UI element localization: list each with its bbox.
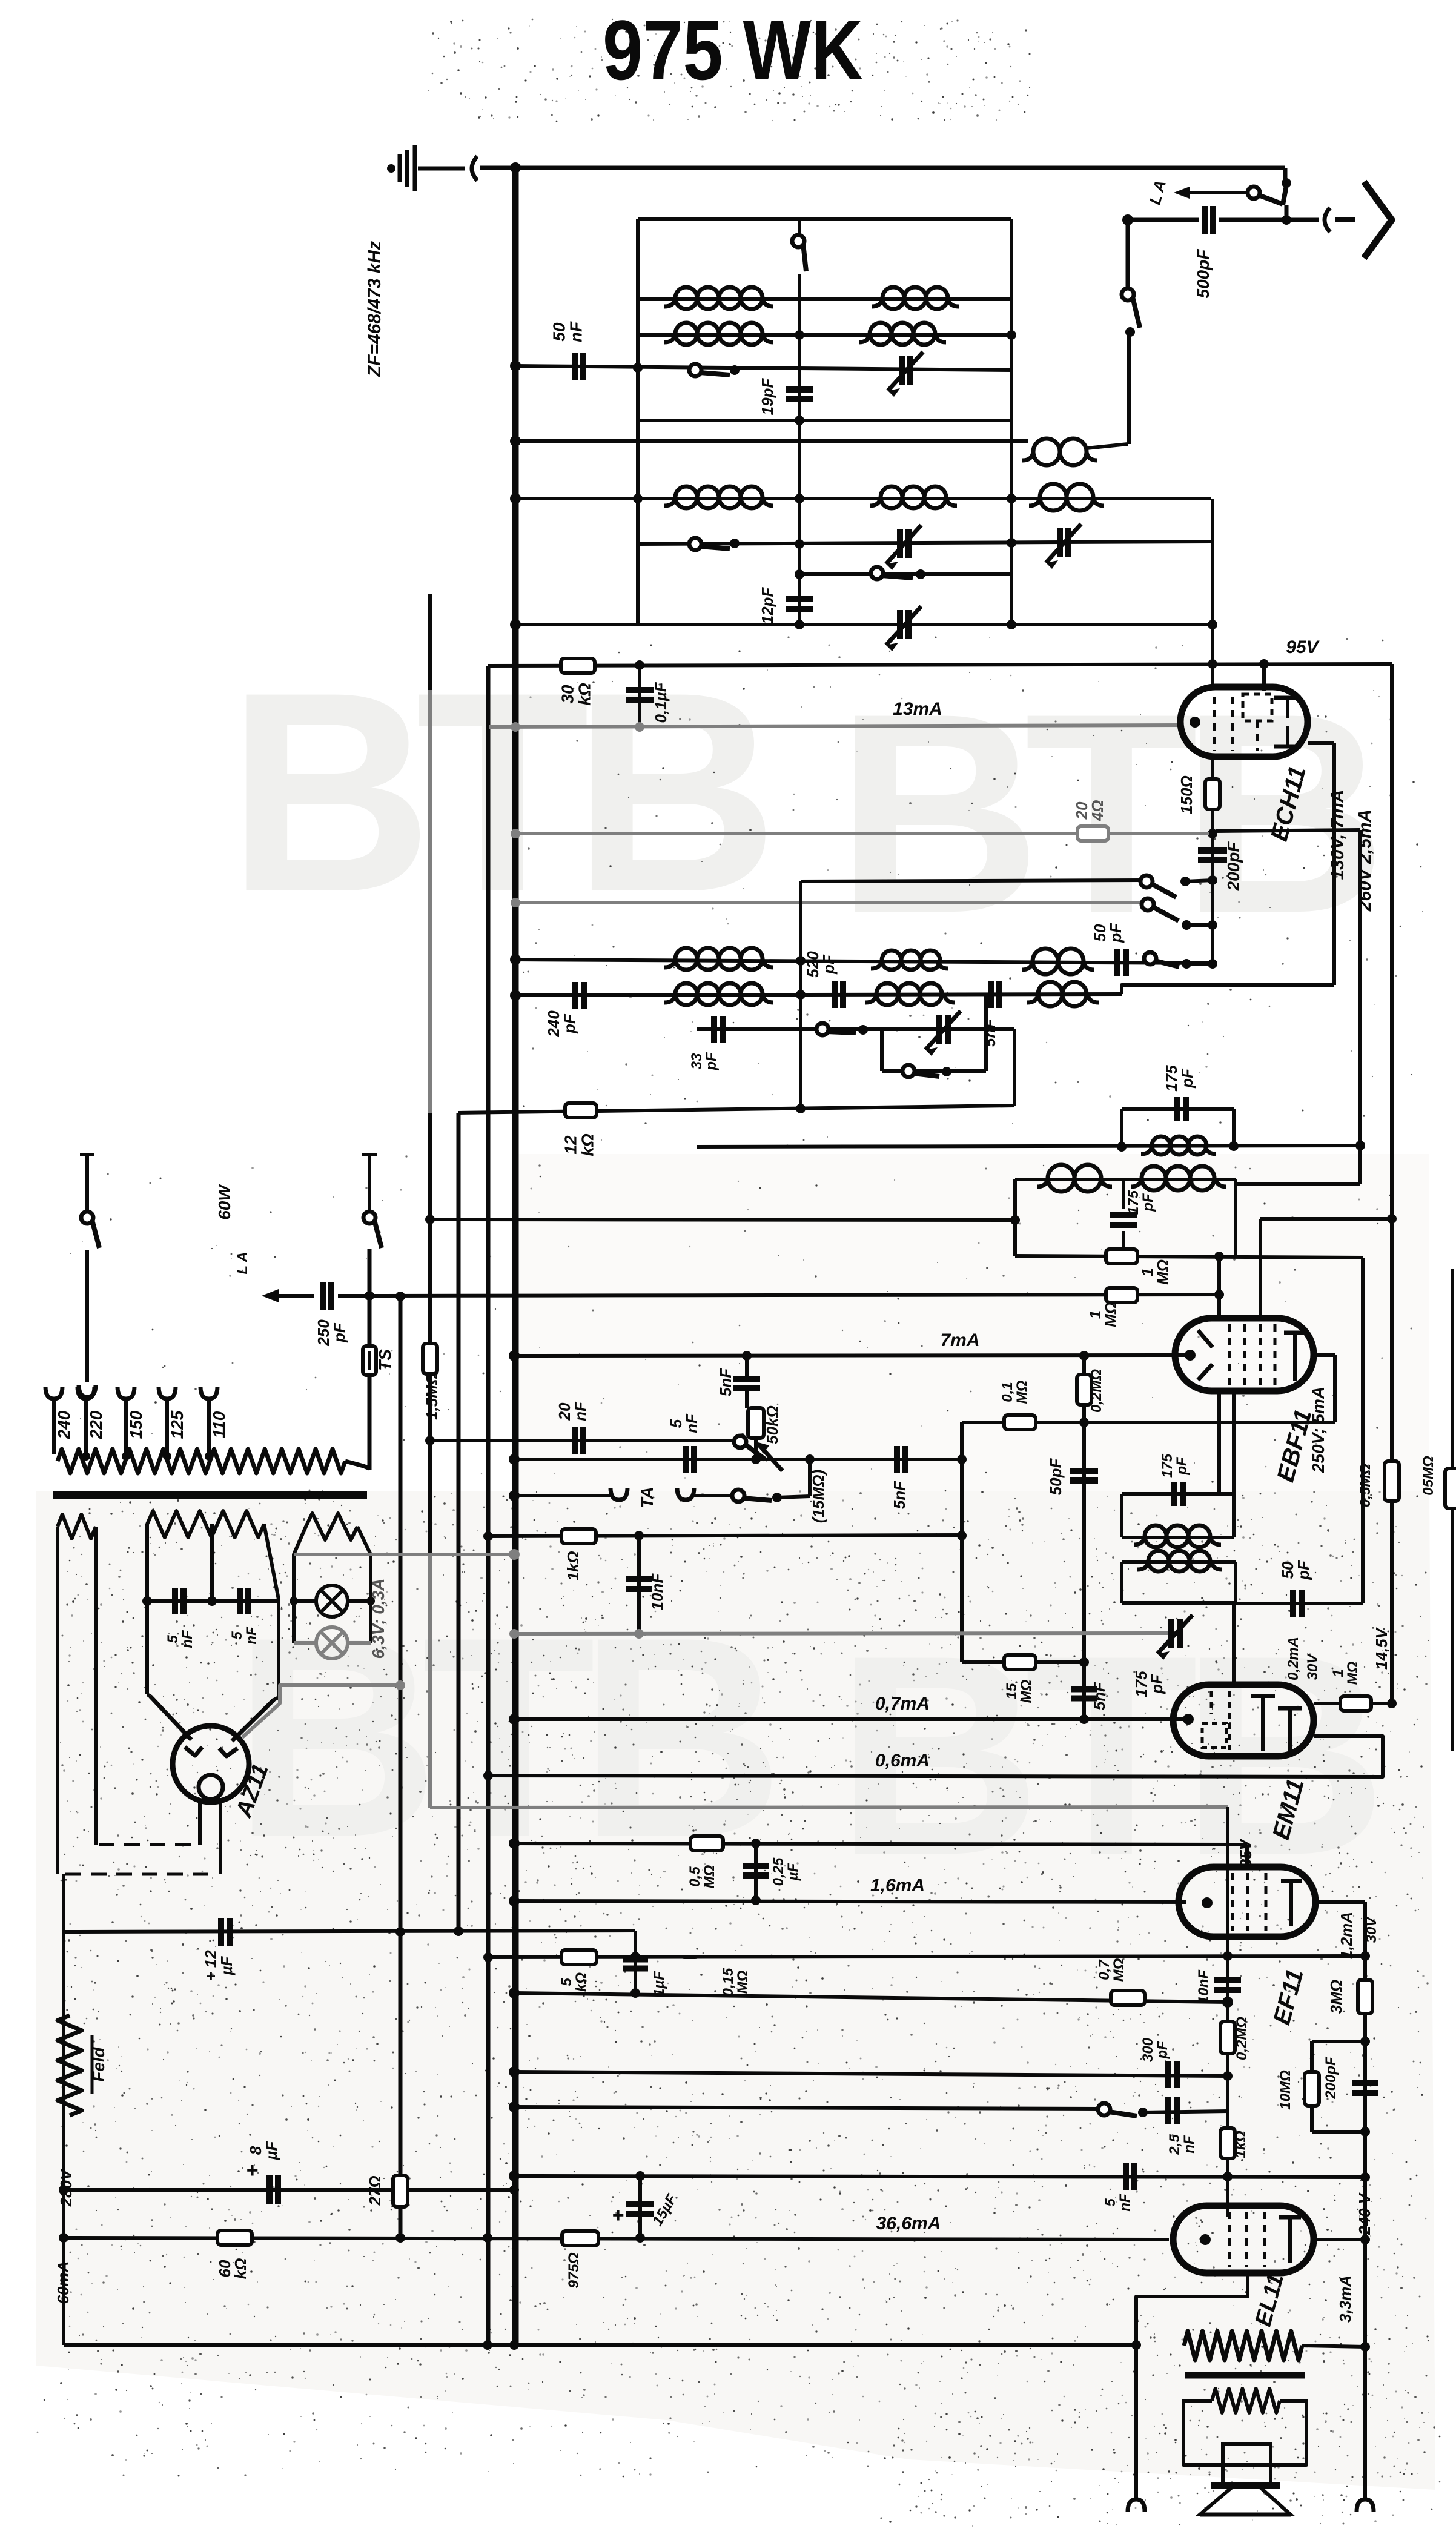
wire to AGC bus <box>1236 1182 1360 1186</box>
resistor 0.5MQ <box>1385 1461 1399 1501</box>
wire 0.6mA line <box>488 1736 1383 1777</box>
antenna symbol <box>1335 217 1355 222</box>
capacitor 0.1uF <box>638 665 641 727</box>
coupling gap antenna <box>1325 208 1330 232</box>
wire 1M row2 <box>369 1295 1219 1296</box>
coil IF2a <box>1048 1165 1074 1192</box>
wire box top edge <box>638 217 1011 221</box>
wire right bus v2254 <box>1363 1902 1367 2501</box>
ground <box>387 164 395 173</box>
wire v2246 <box>1358 830 1362 1184</box>
switch S-d <box>902 1065 915 1077</box>
wire AZ11 anode feeds <box>147 1694 150 1696</box>
coil L14 <box>1038 982 1062 1006</box>
wire row D <box>882 1069 986 1073</box>
wire HV center tap <box>210 1524 214 1601</box>
wire gray EF feed <box>430 1807 1228 1808</box>
resistor 0.2MQ b <box>1220 2021 1235 2054</box>
switch S2 <box>689 364 701 376</box>
capacitor 5nF af <box>683 1446 689 1473</box>
wire 50pF row <box>1236 1602 1363 1605</box>
trimmer 175pF det <box>1168 1619 1174 1648</box>
resistor 0.5MQ b <box>1445 1468 1456 1508</box>
resistor 3MQ <box>1358 1980 1372 2014</box>
winding 4V <box>58 1514 96 1539</box>
resistor 0.5MQ c <box>690 1836 723 1851</box>
wire 1M row1 <box>1015 1256 1363 1258</box>
resistor 27Q <box>393 2175 408 2207</box>
wire v2002 below tube <box>1211 757 1214 964</box>
switch S-la <box>1122 288 1134 300</box>
wire row1 <box>638 297 1011 301</box>
wire main bus v851 <box>512 168 519 2345</box>
capacitor 300pF <box>1165 2061 1171 2088</box>
wire long row to osc coil <box>515 439 1028 443</box>
switch S-b2 <box>1144 952 1156 964</box>
wire v1628 <box>984 995 988 1071</box>
resistor 150Q <box>1205 779 1220 809</box>
wire row C <box>697 1027 1014 1031</box>
wire v2002 tube top <box>1211 499 1214 687</box>
trimmer C2 <box>897 529 903 558</box>
coil L12 <box>675 983 697 1005</box>
wire box mid vertical <box>798 219 801 241</box>
wire bottom rail <box>64 2343 1136 2347</box>
wire 13mA grid line (gray) <box>489 725 1182 727</box>
wire bus v710 <box>428 594 432 690</box>
tube EF11 <box>1179 1867 1315 1937</box>
capacitor 12pF <box>786 596 813 602</box>
wire AF row <box>514 1458 962 1461</box>
capacitor 50pF agc <box>1082 1356 1086 1662</box>
resistor 0.1MQ <box>1004 1415 1036 1430</box>
coil IF3 <box>1145 1525 1166 1547</box>
resistor 1kQ b <box>1220 2128 1235 2158</box>
capacitor 240pF <box>572 982 578 1009</box>
capacitor 50pF b <box>1290 1590 1296 1617</box>
wire 0.7mA line <box>514 1717 1187 1721</box>
wire TA row <box>514 1494 611 1497</box>
wire 7mA line <box>514 1355 1189 1356</box>
wire heater legs <box>292 1554 296 1643</box>
coil L13 <box>876 983 898 1005</box>
switch S-nf <box>1098 2103 1110 2115</box>
wire top antenna bus <box>480 166 1285 170</box>
wire 12uF row <box>64 1931 635 1932</box>
wire EL plate <box>1314 2238 1365 2241</box>
trimmer C4 <box>897 610 903 639</box>
wire gray osc line <box>515 901 1143 904</box>
wire 1.6mA row <box>514 1901 1186 1902</box>
wire plate ECH11 <box>1308 741 1334 745</box>
wire 6.3V rail gray <box>294 1553 514 1556</box>
tube AZ11 <box>173 1726 249 1802</box>
coil L4 <box>870 323 892 345</box>
resistor 5kQ <box>561 1950 597 1965</box>
switch S3 <box>689 538 701 550</box>
wire row8 <box>515 623 1213 626</box>
IF can 3 <box>1122 1492 1234 1496</box>
wire AZ11 B+ gray <box>242 1685 400 1737</box>
coil L9 <box>675 948 697 970</box>
capacitor 15uF <box>638 2176 642 2238</box>
wire antenna input <box>1128 218 1199 222</box>
terminal hook left <box>1128 2499 1145 2512</box>
capacitor 10nF <box>637 1536 641 1634</box>
wire 0.1M row <box>962 1421 1335 1424</box>
wire far right bus <box>1451 1268 1454 1751</box>
wire AZ11 anode right <box>232 1700 274 1741</box>
Feld winding <box>58 2015 82 2115</box>
wire bus v757 <box>457 1113 461 1931</box>
wire v2250 <box>1361 1258 1365 1603</box>
wire bus v661 <box>399 1296 403 2238</box>
wire box left edge <box>636 219 640 625</box>
switch S-20n <box>734 1436 746 1448</box>
wire IF3 bottom <box>1122 1536 1234 1539</box>
wire 1k row <box>488 1535 962 1536</box>
arrow LA top <box>1182 191 1248 194</box>
coil IF4 <box>1148 1551 1169 1571</box>
wire HV left leg <box>145 1524 149 1694</box>
capacitor 12uF <box>218 1918 224 1946</box>
node top bus junction <box>510 162 521 173</box>
switch S-osc2 <box>1142 898 1154 910</box>
200pF/10M combo <box>1360 2037 1370 2046</box>
resistor 1MQ b <box>1106 1288 1137 1302</box>
coil L3 <box>675 323 697 345</box>
wire bus v610 <box>368 1249 372 1346</box>
capacitor 175pF b <box>1110 1212 1137 1218</box>
wire v2037 mid <box>1232 1391 1236 1494</box>
wire IF1 out <box>697 1146 1360 1147</box>
wire IF2 top <box>1015 1178 1236 1181</box>
capacitor 5nF pot top <box>733 1376 760 1382</box>
fuse TS <box>363 1346 376 1375</box>
resistor 975Q <box>562 2231 598 2246</box>
switch S-ant <box>1248 187 1260 199</box>
capacitor 200pF b <box>1352 2080 1378 2086</box>
capacitor 5nF x2 <box>147 1599 279 1603</box>
resistor 15MQ <box>1004 1655 1036 1670</box>
wire filament dashes <box>99 1843 193 1846</box>
capacitor 175pF a <box>1174 1097 1180 1121</box>
wire screen row <box>514 1843 1247 1845</box>
transformer primary <box>58 1449 345 1473</box>
wire row6 <box>638 542 1211 544</box>
resistor 1MQ a <box>1106 1249 1137 1264</box>
tube ECH11 <box>1180 687 1308 757</box>
capacitor 5nF osc <box>988 981 994 1008</box>
resistor 10MQ <box>1305 2072 1319 2106</box>
capacitor IF3 <box>1171 1482 1177 1506</box>
transformer core <box>53 1491 367 1499</box>
wire 300pF row <box>514 2072 1228 2076</box>
wire antenna down-link <box>1283 168 1288 182</box>
lamp 1 <box>294 1599 317 1603</box>
capacitor 200pF <box>1198 847 1227 854</box>
wire gray det <box>514 1633 1181 1634</box>
wire v1673 <box>1013 1029 1016 1106</box>
wire EF plate <box>1315 1900 1365 1904</box>
wire row5 <box>515 497 1211 500</box>
IF can 1 <box>1122 1107 1234 1111</box>
capacitor 5nF af2 <box>894 1446 900 1473</box>
resistor 1MQ em <box>1340 1696 1371 1711</box>
wire HV right leg <box>264 1524 279 1697</box>
switch mains <box>80 1153 94 1156</box>
trimmer C3 <box>1057 528 1063 557</box>
wire v2027 <box>1226 1807 1229 2217</box>
wire AZ11 anode left <box>150 1696 191 1740</box>
wire row B osc <box>515 994 1122 995</box>
coil L10 <box>882 950 901 970</box>
jack TA right <box>677 1488 694 1500</box>
wire antenna branch vertical <box>1126 220 1130 290</box>
trimmer C1 <box>899 356 905 385</box>
coil L1 <box>675 287 697 309</box>
switch S4 <box>871 567 883 579</box>
volume pot chain <box>745 1356 749 1376</box>
terminal hook right <box>1357 2499 1374 2512</box>
capacitor 0.25uF <box>754 1843 758 1901</box>
output transformer primary <box>1184 2331 1302 2360</box>
wire 20nF row <box>430 1439 736 1442</box>
capacitor 500pF <box>1202 206 1208 234</box>
wire ground to coupling <box>418 167 465 171</box>
wire v2013 mid <box>1217 1391 1221 1494</box>
capacitor 250pF <box>320 1282 326 1310</box>
wire row3 50nF <box>515 366 1011 370</box>
coil L2 <box>882 287 904 309</box>
resistor 0.7MQ <box>1111 1991 1145 2005</box>
wire v2013 <box>1217 1256 1221 1318</box>
capacitor 50nF <box>572 353 578 380</box>
wire v2037 to EM11 <box>1232 1603 1236 1685</box>
wire v1322 <box>799 881 802 1109</box>
tube EBF11 <box>1175 1318 1314 1391</box>
wire row7 <box>799 572 1013 576</box>
resistor 1kQ <box>561 1529 596 1544</box>
capacitor 19pF <box>786 386 813 393</box>
mains taps <box>45 1387 62 1399</box>
wire v2203 <box>1332 743 1336 985</box>
potentiometer 50kQ <box>748 1408 764 1438</box>
wire osc bottom <box>458 1106 1014 1113</box>
wire 2.5nF row <box>514 2107 1100 2109</box>
wire grid line <box>430 1219 1015 1220</box>
trimmer C5 <box>936 1015 942 1044</box>
resistor 1.5MQ <box>423 1344 437 1374</box>
wire v2081 <box>1259 1219 1262 1318</box>
capacitor 5nF b <box>1082 1662 1086 1719</box>
lamp 2 (gray) <box>294 1641 317 1645</box>
output secondary <box>1212 2389 1280 2413</box>
switch mains b <box>362 1153 377 1156</box>
wire grid row EF <box>488 1956 1365 1957</box>
wire gray 20 ohm line <box>515 832 1209 835</box>
wire row2 <box>638 333 1011 337</box>
pot wiper arrow <box>758 1444 783 1471</box>
speaker <box>1223 2444 1271 2484</box>
switch S1 <box>792 235 804 247</box>
wire box right edge <box>1010 219 1013 625</box>
capacitor 5nF c <box>1123 2163 1129 2190</box>
winding HV <box>147 1511 264 1537</box>
wire bus v806 <box>486 666 491 2345</box>
wire 60k row <box>64 2238 1169 2240</box>
wire 95V rail <box>488 664 1392 666</box>
wire 130V link <box>1216 830 1360 831</box>
IF can 4 <box>1122 1560 1236 1564</box>
coil L7 <box>881 486 902 508</box>
resistor 60kQ <box>217 2230 252 2245</box>
wire 8uF row <box>64 2188 514 2192</box>
tube EL11 <box>1173 2206 1314 2273</box>
capacitor 8uF <box>266 2175 273 2204</box>
wire row4 <box>638 419 1011 422</box>
jack TA left <box>611 1488 627 1500</box>
wire band line1 <box>801 880 1143 881</box>
wire EL cathode <box>1136 2273 1248 2501</box>
capacitor 2.5nF <box>1165 2097 1171 2124</box>
capacitor 20nF <box>572 1427 578 1454</box>
switch S-c <box>816 1023 829 1035</box>
wire v2087 <box>1262 664 1266 691</box>
wire cath row 0.7M <box>514 1993 1228 2002</box>
coil IF1 <box>1152 1136 1170 1155</box>
capacitor 50pF osc <box>1114 949 1120 976</box>
wire AVC bus v2298 <box>1390 664 1394 1703</box>
wire v1588 <box>960 1422 964 1662</box>
resistor 12kQ <box>565 1103 597 1118</box>
resistor 0.2MQ a <box>1077 1375 1091 1405</box>
resistor 0.15MQ <box>683 1957 697 1957</box>
resistor 20Q <box>1077 826 1108 841</box>
capacitor 33pF <box>711 1016 717 1043</box>
arrow LA2 <box>262 1289 279 1302</box>
wire row B to plate <box>1122 985 1334 994</box>
winding 6.3V <box>306 1513 357 1540</box>
switch S-b1 <box>1140 875 1153 887</box>
wire EM11 1M <box>1314 1702 1392 1705</box>
coil L5 <box>1033 439 1060 465</box>
wire AVC top <box>1260 1217 1392 1221</box>
wire row A osc <box>515 960 1213 963</box>
paper tint <box>36 1491 1435 2490</box>
wire v1456 <box>880 1029 884 1071</box>
wire 5nF row <box>514 2176 1365 2177</box>
coil L11 <box>1033 949 1058 974</box>
wire 280V rail <box>62 1874 65 2345</box>
coil L6 <box>675 486 697 508</box>
coil IF2b <box>1142 1166 1166 1190</box>
wire 15M row <box>962 1660 1084 1664</box>
switch S-ta <box>732 1490 744 1502</box>
capacitor 1uF <box>634 1931 637 1993</box>
coupling gap <box>472 156 477 181</box>
tube EM11 <box>1173 1685 1314 1756</box>
resistor 30kQ <box>561 658 595 673</box>
wire plate EBF <box>1314 1353 1335 1357</box>
output transformer core <box>1185 2372 1305 2379</box>
wire v1337 <box>808 1459 812 1496</box>
coil L8 <box>1040 484 1067 511</box>
capacitor 10nF ef <box>1214 1977 1241 1983</box>
capacitor 520pF <box>832 981 838 1008</box>
